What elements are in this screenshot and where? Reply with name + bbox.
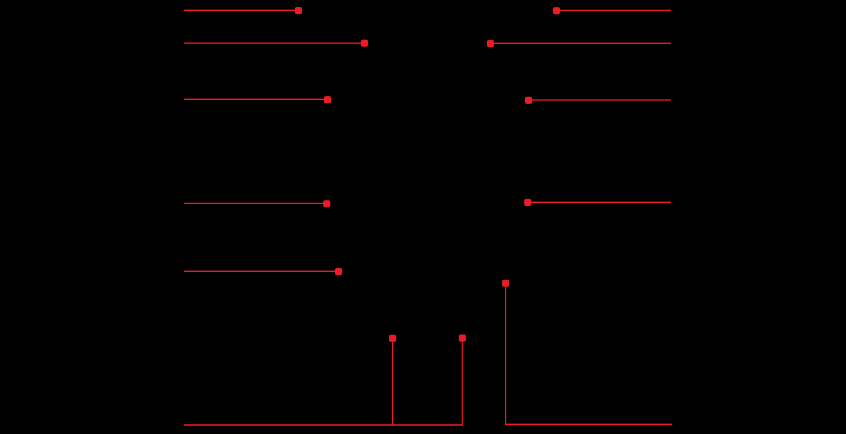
wire: left leader line pin 2 [184,42,364,44]
wire: left leader line pin 5 [184,270,339,272]
node: pin-1 dot [295,7,302,14]
wire: left leader line pin 1 [184,9,298,11]
node: pin-D dot [524,199,531,206]
node: bottom pin dot G [502,280,509,287]
node: pin-A dot [553,7,560,14]
node: pin-4 dot [323,200,330,207]
node: pin-2 dot [361,40,368,47]
node: pin-B dot [487,40,494,47]
node: pin-3 dot [324,96,331,103]
node: bottom pin dot F [459,335,466,342]
wire: right leader line pin D [528,201,671,203]
wire: bottom horizontal bus left segment [184,424,463,426]
wire: vertical leader from pin E [392,338,394,425]
wire: right leader line pin C [529,99,672,101]
wire: vertical leader from pin G [505,283,507,424]
wire: right leader line pin B [490,42,671,44]
node: pin-C dot [525,97,532,104]
wire: left leader line pin 3 [184,98,328,100]
wire: right leader line pin A [556,9,671,11]
wire: bottom horizontal bus right segment [505,423,672,425]
wire: left leader line pin 4 [184,202,327,204]
wire: vertical leader from pin F [461,338,463,425]
node: pin-5 dot [335,268,342,275]
node: bottom pin dot E [389,335,396,342]
